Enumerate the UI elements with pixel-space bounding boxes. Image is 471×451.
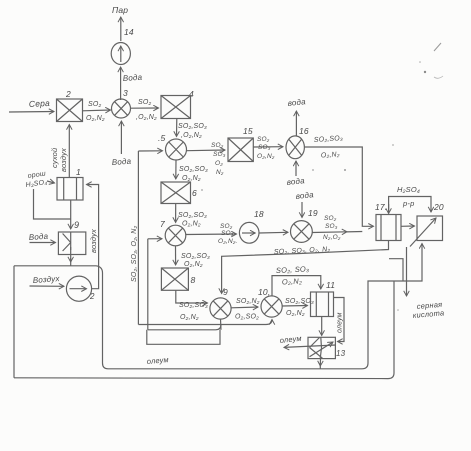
wire absorber 17 bottom acid line to mixer 9 top	[222, 241, 389, 294]
absorber 17	[376, 215, 401, 241]
svg-text:16: 16	[299, 126, 309, 136]
wire mixer 9 to mixer 10	[231, 306, 258, 309]
heat exchanger 8	[161, 268, 188, 290]
wire mixer 10 top bypass to absorber 11 top	[272, 276, 321, 296]
svg-text:олеум: олеум	[146, 355, 169, 366]
wire tower 1 bottom down into tank 9a	[70, 200, 72, 229]
steam drum 14	[111, 43, 130, 65]
wire bottom outer line	[14, 281, 394, 379]
heat exchanger 4	[161, 96, 191, 119]
tank 20	[410, 216, 443, 247]
mixer 13	[308, 337, 335, 358]
wire mixer 9 bottom stub	[220, 319, 223, 330]
pencil speck	[397, 309, 399, 311]
svg-text:SO₂: SO₂	[257, 136, 270, 143]
svg-text:SO₂,SO₃: SO₂,SO₃	[285, 298, 314, 305]
wire exchanger 4 down to mixer 5	[176, 119, 178, 137]
drying tower 1	[57, 178, 83, 201]
svg-text:вода: вода	[287, 97, 306, 108]
mixer 7	[165, 225, 186, 246]
gas pump 18	[239, 222, 259, 243]
svg-text:SO₂: SO₂	[138, 99, 152, 106]
wire water stub into mixer 3	[120, 121, 122, 154]
absorber 11	[311, 292, 334, 317]
svg-text:6: 6	[192, 188, 197, 198]
svg-text:18: 18	[254, 209, 264, 219]
svg-text:SO₃: SO₃	[221, 230, 234, 237]
svg-text:Сера: Сера	[29, 98, 51, 109]
wire mixer 7 to pump 18	[186, 233, 237, 236]
svg-text:SO₃: SO₃	[325, 223, 338, 230]
svg-text:Воздух: Воздух	[33, 274, 61, 285]
pencil speck top right	[434, 43, 441, 51]
pencil speck	[419, 61, 421, 63]
mixer 9	[210, 298, 231, 319]
mixer 19	[291, 221, 313, 243]
svg-text:Вода: Вода	[29, 232, 49, 242]
svg-text:O₂,N₂: O₂,N₂	[86, 115, 105, 122]
svg-text:вода: вода	[295, 190, 314, 201]
wire mixer 5 to exchanger 15	[187, 149, 226, 152]
svg-text:11: 11	[326, 280, 335, 290]
wire exchanger 6 down to mixer 7	[175, 204, 177, 223]
svg-text:9: 9	[223, 287, 228, 297]
wire absorber 17 to tank 20	[401, 225, 415, 227]
wire acid recirculation bracket 17-20	[389, 197, 431, 214]
wire mixer 5 down to exchanger 6	[175, 160, 177, 179]
wire mixer 10 to absorber 11	[282, 305, 307, 308]
wire acid drain from text down to tower outlet pipe	[34, 189, 71, 219]
svg-text:SO₂,SO₃: SO₂,SO₃	[178, 123, 207, 130]
mixer 3	[112, 99, 131, 118]
wire bottom header to tank 20 riser	[108, 244, 422, 369]
svg-text:SO₂, SO₃: SO₂, SO₃	[276, 264, 310, 275]
pencil speck	[312, 169, 314, 171]
svg-text:O₂,N₂: O₂,N₂	[321, 151, 340, 159]
svg-text:SO₂,SO₃: SO₂,SO₃	[181, 253, 210, 260]
svg-text:сухой: сухой	[50, 147, 59, 168]
svg-text:13: 13	[336, 349, 346, 358]
wire steam out arrow	[120, 17, 122, 41]
wire furnace 2 to mixer 3	[83, 109, 111, 112]
svg-text:3: 3	[123, 88, 128, 98]
svg-text:SO₂: SO₂	[220, 223, 233, 230]
svg-text:SO₂,SO₃: SO₂,SO₃	[179, 302, 208, 309]
svg-text:O₂: O₂	[215, 160, 223, 167]
wire exchanger 8 to mixer 9	[176, 290, 208, 303]
svg-text:SO₂,SO₃: SO₂,SO₃	[178, 212, 207, 219]
svg-text:H₂SO₄: H₂SO₄	[397, 185, 420, 194]
wire return gas into mixer 7 from left	[148, 238, 162, 240]
svg-text:O₂,N₂: O₂,N₂	[182, 175, 201, 182]
svg-text:Пар: Пар	[112, 5, 128, 15]
wire absorber 11 bottom to mixer 13	[321, 317, 323, 336]
svg-text:Вода: Вода	[112, 157, 132, 167]
furnace 2	[57, 99, 83, 122]
wire water into tank	[30, 242, 56, 244]
wire return gas into mixer 5 from left	[138, 150, 162, 152]
pencil speck	[392, 144, 394, 146]
svg-text:олеум: олеум	[337, 312, 344, 333]
svg-text:.5: .5	[158, 133, 166, 143]
svg-text:SO₂: SO₂	[88, 101, 102, 108]
wire product acid out of tank 20	[406, 247, 408, 296]
wire sulfur feed arrow into furnace 2	[9, 111, 54, 114]
svg-text:9: 9	[74, 220, 79, 230]
wire mixer 16 right then down to absorber 17	[305, 147, 374, 226]
wire water vapour out of mixer 16	[295, 111, 297, 136]
wire return line Q	[148, 325, 221, 330]
wire left enclosure down	[13, 266, 15, 378]
svg-text:O₂,SO₂: O₂,SO₂	[235, 314, 259, 321]
svg-text:воздух: воздух	[59, 148, 68, 172]
svg-text:19: 19	[308, 208, 318, 218]
pencil speck	[424, 71, 426, 73]
wire return line P to mixer 10 bottom	[138, 320, 272, 325]
svg-text:O₂,N₂.: O₂,N₂.	[218, 238, 238, 245]
svg-text:воздух: воздух	[89, 229, 98, 253]
mixer 5	[166, 139, 187, 160]
mixer 10	[261, 296, 282, 317]
svg-text:SO₂, SO₃, O₂, N₂: SO₂, SO₃, O₂, N₂	[131, 225, 138, 282]
svg-text:O₂,N₂: O₂,N₂	[184, 261, 203, 268]
wire water stub into mixer 16 bottom	[295, 161, 297, 176]
svg-text:14: 14	[124, 27, 134, 37]
mixer 16	[286, 136, 304, 159]
svg-text:O₂,N₂: O₂,N₂	[286, 310, 305, 317]
wire irrigation acid into tower 1	[47, 181, 55, 183]
svg-text:15: 15	[243, 126, 253, 136]
wire dry air from tower 1 up to furnace 2	[68, 125, 70, 178]
blower 12	[66, 276, 91, 301]
svg-text:SO₂,SO₃: SO₂,SO₃	[179, 166, 208, 173]
svg-text:O₂,N₂: O₂,N₂	[182, 221, 201, 228]
wire tank bottom outlet	[70, 247, 72, 262]
svg-text:7: 7	[160, 219, 165, 229]
svg-text:Вода: Вода	[123, 73, 143, 83]
wire mixer 13 bottom down to header	[319, 359, 321, 366]
wire return gas riser V2	[147, 239, 149, 330]
svg-text:1: 1	[76, 167, 81, 177]
svg-text:SO₂,N₂: SO₂,N₂	[236, 298, 260, 305]
wire water stub into mixer 19 top	[301, 202, 303, 218]
svg-text:O₂,N₂: O₂,N₂	[257, 153, 275, 160]
wire mixer 19 out to absorber riser	[312, 231, 347, 234]
svg-text:,O₂,N₂: ,O₂,N₂	[136, 114, 157, 121]
heat exchanger 6	[161, 182, 191, 204]
svg-text:SO₃: SO₃	[213, 151, 226, 158]
wire return gas riser V1	[137, 151, 139, 325]
wire acid stub right of 17	[389, 259, 403, 281]
svg-text:O₂,N₂: O₂,N₂	[180, 314, 199, 321]
wire exchanger 15 to mixer 16	[253, 146, 283, 148]
svg-text:4: 4	[189, 89, 194, 99]
wire air feed arrow into blower	[30, 285, 65, 287]
svg-text:10,: 10,	[258, 287, 270, 297]
svg-text:20: 20	[433, 202, 444, 212]
wire mixer 7 down to exchanger 8	[175, 246, 177, 265]
pencil speck	[201, 189, 203, 191]
wire acid header left	[14, 266, 108, 369]
svg-text:N₂: N₂	[216, 169, 224, 176]
pencil speck	[344, 169, 346, 171]
small tank	[58, 232, 85, 255]
heat exchanger 15	[228, 138, 253, 162]
svg-text:р-р: р-р	[402, 199, 414, 208]
svg-text:,O₂,N₂: ,O₂,N₂	[181, 132, 202, 139]
pencil speck	[434, 76, 443, 78]
wire water from mixer 3 up to drum 14	[120, 67, 122, 100]
svg-text:SO₂: SO₂	[211, 142, 224, 149]
wire absorber 11 right side oleum line down to mixer 13	[334, 298, 345, 342]
svg-text:SO₂: SO₂	[324, 215, 337, 222]
wire mixer 3 to exchanger 4	[131, 107, 159, 109]
wire blower outlet up to tower 1 right side	[87, 185, 99, 289]
svg-text:N₂,O₂: N₂,O₂	[323, 234, 341, 241]
svg-text:вода: вода	[286, 176, 305, 187]
svg-text:2: 2	[89, 292, 95, 301]
svg-text:O₂,N₂: O₂,N₂	[282, 276, 303, 286]
wire oleum product arrow left	[284, 345, 336, 347]
svg-text:SO₃: SO₃	[258, 144, 271, 151]
svg-text:2: 2	[65, 89, 71, 99]
wire lower loop R	[147, 330, 220, 345]
svg-text:8: 8	[191, 275, 196, 285]
svg-text:17.: 17.	[375, 202, 387, 212]
wire pump 18 to mixer 19	[259, 231, 288, 234]
